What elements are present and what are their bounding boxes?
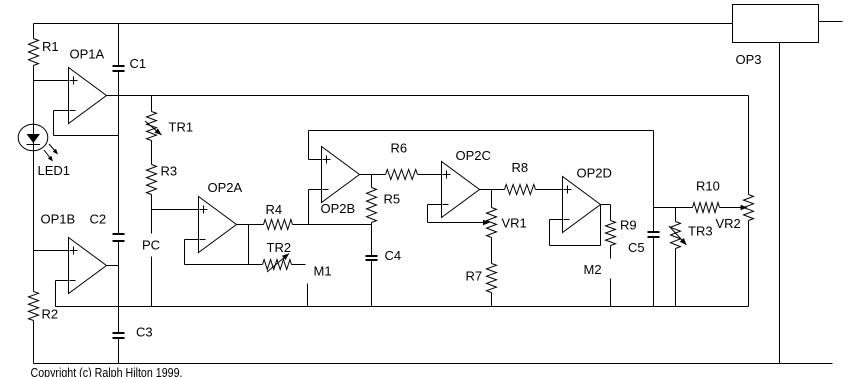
wire OP2D feedback: [550, 219, 563, 221]
svg-text:VR1: VR1: [502, 216, 527, 231]
wire R9 tail: [610, 246, 612, 259]
capacitor C4: [366, 255, 378, 257]
trimmer TR1: [147, 112, 157, 141]
svg-text:LED1: LED1: [38, 163, 71, 178]
op-amp OP2C: [442, 162, 480, 218]
wire OP2C inverting to VR1 wiper: [428, 204, 442, 206]
svg-text:TR3: TR3: [688, 224, 713, 239]
wire bottom rail: [34, 363, 833, 365]
resistor R6: [386, 170, 418, 180]
wire OP2A non-inverting input: [152, 209, 199, 211]
resistor R3: [147, 165, 157, 195]
wire TR3 to mid rail: [675, 249, 677, 307]
svg-text:TR2: TR2: [267, 240, 292, 255]
capacitor C3: [113, 332, 125, 334]
svg-text:R1: R1: [42, 39, 59, 54]
wire R4 to OP2B inverting: [293, 224, 372, 226]
resistor R10: [693, 203, 720, 213]
svg-text:R4: R4: [266, 202, 283, 217]
svg-text:OP1A: OP1A: [70, 47, 105, 62]
wire TR2 tail: [292, 264, 306, 266]
wire top rail: [34, 23, 733, 25]
wire PC to mid rail: [151, 257, 153, 307]
capacitor C2: [113, 233, 125, 235]
resistor R1: [29, 39, 39, 66]
wire M2 to mid rail: [610, 279, 612, 307]
wire C3 to bottom rail: [118, 339, 120, 364]
wire R7 to mid rail: [491, 293, 493, 307]
wire OP1B output: [106, 265, 119, 267]
resistor R9: [606, 221, 616, 246]
svg-text:M1: M1: [314, 264, 332, 279]
wire OP1A output node: [106, 95, 749, 97]
trimmer TR3: [671, 222, 681, 249]
wire rail2: [309, 130, 654, 132]
svg-text:C5: C5: [628, 240, 645, 255]
capacitor C5: [648, 231, 660, 233]
potentiometer VR2: [744, 195, 754, 221]
wire VR1 branch: [491, 190, 493, 208]
wire TR1 branch: [151, 96, 153, 112]
op-amp OP1A: [69, 68, 107, 124]
wire OP2A output to TR2 junction: [248, 225, 250, 265]
wire OP2B non-inverting to rail2: [309, 159, 322, 161]
op-amp OP1B: [69, 238, 107, 294]
wire R6 to OP2C input: [418, 174, 442, 176]
svg-text:C4: C4: [385, 248, 402, 263]
wire C4 to mid rail: [371, 261, 373, 307]
potentiometer VR1: [487, 208, 497, 238]
svg-text:R8: R8: [512, 160, 529, 175]
wire mid rail: [56, 306, 749, 308]
svg-text:VR2: VR2: [716, 216, 741, 231]
svg-text:R10: R10: [696, 179, 720, 194]
wire VR2 top feed: [748, 96, 750, 195]
resistor R5: [367, 188, 377, 223]
wire R10 to VR2 wiper: [720, 207, 742, 209]
svg-text:C3: C3: [136, 325, 153, 340]
block OP3: [733, 5, 819, 43]
wire OP1B non-inverting input: [34, 250, 69, 252]
svg-text:OP2A: OP2A: [208, 180, 243, 195]
wire OP1A feedback: [54, 110, 69, 112]
svg-text:OP2B: OP2B: [321, 201, 356, 216]
wire TR3 branch: [675, 208, 677, 222]
wire OP1A non-inverting input: [34, 80, 69, 82]
wire VR1 to R7: [491, 238, 493, 264]
wire R8 to OP2D input: [536, 189, 563, 191]
wire OP3 bottom to ground rail: [779, 43, 781, 364]
op-amp OP2D: [563, 177, 601, 233]
svg-text:R5: R5: [384, 192, 401, 207]
wire left vertical rail: [33, 24, 35, 39]
wire R5 to C4: [371, 223, 373, 256]
resistor R2: [29, 292, 39, 321]
trimmer TR2: [263, 260, 292, 270]
wire VR2 to mid rail: [748, 221, 750, 307]
wire OP2A feedback: [185, 239, 199, 241]
svg-text:PC: PC: [142, 238, 160, 253]
wire R3 to OP2A input: [151, 195, 153, 234]
wire C5 vertical: [653, 131, 655, 233]
svg-text:C1: C1: [130, 56, 147, 71]
capacitor C1: [113, 65, 125, 67]
wire TR1 to R3: [151, 141, 153, 165]
svg-text:R6: R6: [391, 141, 408, 156]
svg-text:OP2C: OP2C: [456, 148, 491, 163]
svg-text:R7: R7: [466, 269, 483, 284]
svg-text:OP2D: OP2D: [577, 166, 612, 181]
op-amp OP2B: [322, 147, 360, 203]
svg-text:R9: R9: [620, 218, 637, 233]
wire OP1B feedback / mid rail left: [56, 280, 69, 282]
resistor R4: [264, 220, 293, 230]
svg-text:Copyright (c) Ralph Hilton 199: Copyright (c) Ralph Hilton 1999.: [31, 365, 183, 377]
wire M1 to mid rail: [307, 284, 309, 307]
resistor R7: [487, 264, 497, 293]
wire C2 to C3: [118, 242, 120, 334]
svg-text:C2: C2: [90, 212, 107, 227]
wire OP2B output: [360, 174, 386, 176]
wire R5 branch: [371, 175, 373, 188]
wire OP2A output: [237, 224, 264, 226]
svg-text:R3: R3: [161, 164, 178, 179]
wire OP2D output: [601, 204, 611, 206]
LED LED1: [18, 124, 48, 151]
svg-text:OP1B: OP1B: [41, 212, 76, 227]
capacitor C1 vertical wire: [118, 24, 120, 67]
op-amp OP2A: [199, 197, 237, 253]
svg-text:R2: R2: [42, 307, 59, 322]
svg-text:OP3: OP3: [736, 52, 762, 67]
resistor R8: [505, 185, 536, 195]
svg-text:M2: M2: [584, 262, 602, 277]
wire R10 feed: [654, 207, 693, 209]
wire OP2C output: [480, 189, 505, 191]
svg-text:TR1: TR1: [169, 120, 194, 135]
wire OP3 right stub: [819, 21, 843, 23]
